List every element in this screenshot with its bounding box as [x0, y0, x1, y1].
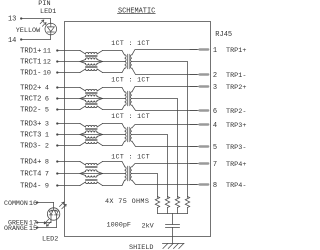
svg-text:SHIELD: SHIELD — [129, 244, 153, 250]
svg-text:4: 4 — [45, 85, 49, 93]
svg-text:9: 9 — [45, 183, 49, 191]
svg-text:14: 14 — [8, 37, 16, 45]
svg-text:15: 15 — [29, 225, 37, 233]
svg-text:2: 2 — [213, 72, 217, 80]
svg-text:TRP4-: TRP4- — [226, 182, 246, 190]
svg-text:7: 7 — [45, 171, 49, 179]
svg-text:RJ45: RJ45 — [215, 31, 232, 39]
svg-text:TRP2+: TRP2+ — [226, 84, 246, 92]
svg-text:TRCT2: TRCT2 — [20, 96, 41, 104]
svg-text:5: 5 — [213, 144, 217, 152]
svg-text:SCHEMATIC: SCHEMATIC — [118, 7, 155, 15]
svg-text:TRP3-: TRP3- — [226, 144, 246, 152]
svg-text:COMMON: COMMON — [4, 200, 28, 207]
svg-text:1: 1 — [213, 47, 217, 55]
svg-text:8: 8 — [45, 159, 49, 167]
svg-text:10: 10 — [43, 70, 51, 78]
svg-text:TRD4+: TRD4+ — [20, 159, 41, 167]
svg-text:7: 7 — [213, 161, 217, 169]
svg-text:1CT : 1CT: 1CT : 1CT — [111, 40, 150, 47]
svg-text:TRD3+: TRD3+ — [20, 121, 41, 129]
svg-text:3: 3 — [213, 84, 217, 92]
svg-text:1CT : 1CT: 1CT : 1CT — [111, 154, 150, 161]
svg-text:PIN: PIN — [38, 0, 50, 8]
svg-text:TRP2-: TRP2- — [226, 108, 246, 116]
svg-text:TRD2+: TRD2+ — [20, 85, 41, 93]
svg-text:1CT : 1CT: 1CT : 1CT — [111, 77, 150, 84]
svg-text:1000pF: 1000pF — [107, 222, 131, 230]
svg-text:1CT : 1CT: 1CT : 1CT — [111, 113, 150, 120]
svg-text:LED1: LED1 — [40, 8, 56, 16]
svg-text:ORANGE: ORANGE — [4, 225, 28, 232]
svg-text:16: 16 — [29, 200, 37, 208]
svg-text:3: 3 — [45, 121, 49, 129]
svg-text:YELLOW: YELLOW — [16, 27, 41, 35]
svg-text:4: 4 — [213, 122, 217, 130]
svg-text:TRCT1: TRCT1 — [20, 59, 41, 67]
svg-text:TRD3-: TRD3- — [20, 143, 41, 151]
svg-text:4X 75 OHMS: 4X 75 OHMS — [105, 198, 149, 206]
svg-text:6: 6 — [213, 108, 217, 116]
svg-text:2kV: 2kV — [142, 222, 155, 230]
svg-text:TRD1-: TRD1- — [20, 70, 41, 78]
svg-text:TRP1+: TRP1+ — [226, 47, 246, 55]
svg-text:LED2: LED2 — [42, 236, 58, 244]
svg-text:6: 6 — [45, 96, 49, 104]
svg-text:TRP3+: TRP3+ — [226, 122, 246, 130]
svg-text:11: 11 — [43, 48, 51, 56]
svg-text:1: 1 — [45, 132, 49, 140]
svg-text:12: 12 — [43, 59, 51, 67]
svg-text:5: 5 — [45, 107, 49, 115]
svg-text:TRD1+: TRD1+ — [20, 48, 41, 56]
svg-text:TRD4-: TRD4- — [20, 183, 41, 191]
svg-text:TRCT3: TRCT3 — [20, 132, 41, 140]
svg-text:TRD2-: TRD2- — [20, 107, 41, 115]
svg-text:8: 8 — [213, 182, 217, 190]
svg-text:2: 2 — [45, 143, 49, 151]
svg-text:13: 13 — [8, 16, 16, 24]
svg-text:TRP4+: TRP4+ — [226, 161, 246, 169]
svg-text:TRCT4: TRCT4 — [20, 171, 41, 179]
svg-text:TRP1-: TRP1- — [226, 72, 246, 80]
